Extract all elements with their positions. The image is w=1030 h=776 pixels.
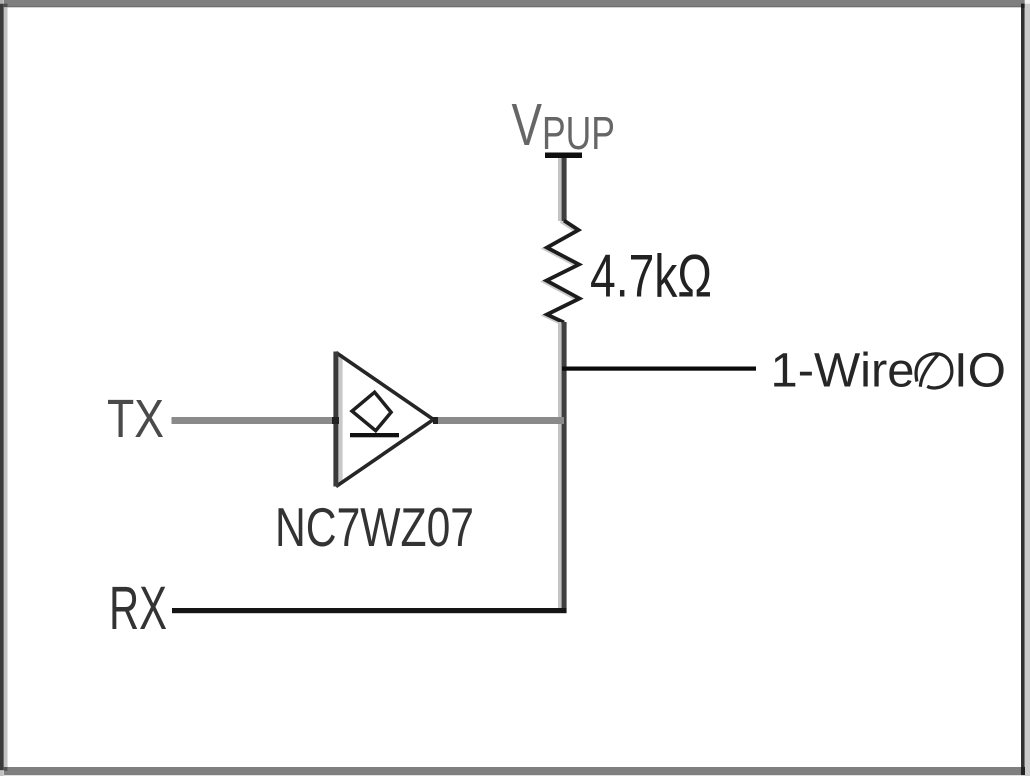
RX wire [172,608,567,613]
svg-text:V: V [512,91,543,158]
svg-text:RX: RX [109,574,167,642]
node junction 1-Wire branch [562,367,756,371]
buffer U1 triangle NC7WZ07 [333,352,433,487]
power rail bar [545,153,582,159]
wire VPUP bar to resistor [558,158,567,221]
node label 1-WireのIO [771,345,1007,398]
resistor R1 zigzag [543,221,580,324]
svg-text:IO: IO [954,345,1006,398]
wire resistor to RX corner (vertical) [558,322,567,613]
open-drain diamond symbol [352,392,391,431]
svg-text:1-Wire: 1-Wire [771,345,915,398]
svg-text:PUP: PUP [542,107,615,159]
svg-text:NC7WZ07: NC7WZ07 [275,496,474,558]
svg-text:4.7kΩ: 4.7kΩ [590,243,712,310]
power label VPUP [512,91,616,159]
TX wire [172,417,340,424]
buffer output wire [433,417,564,424]
svg-text:TX: TX [107,390,164,449]
open-drain underline [350,433,399,437]
